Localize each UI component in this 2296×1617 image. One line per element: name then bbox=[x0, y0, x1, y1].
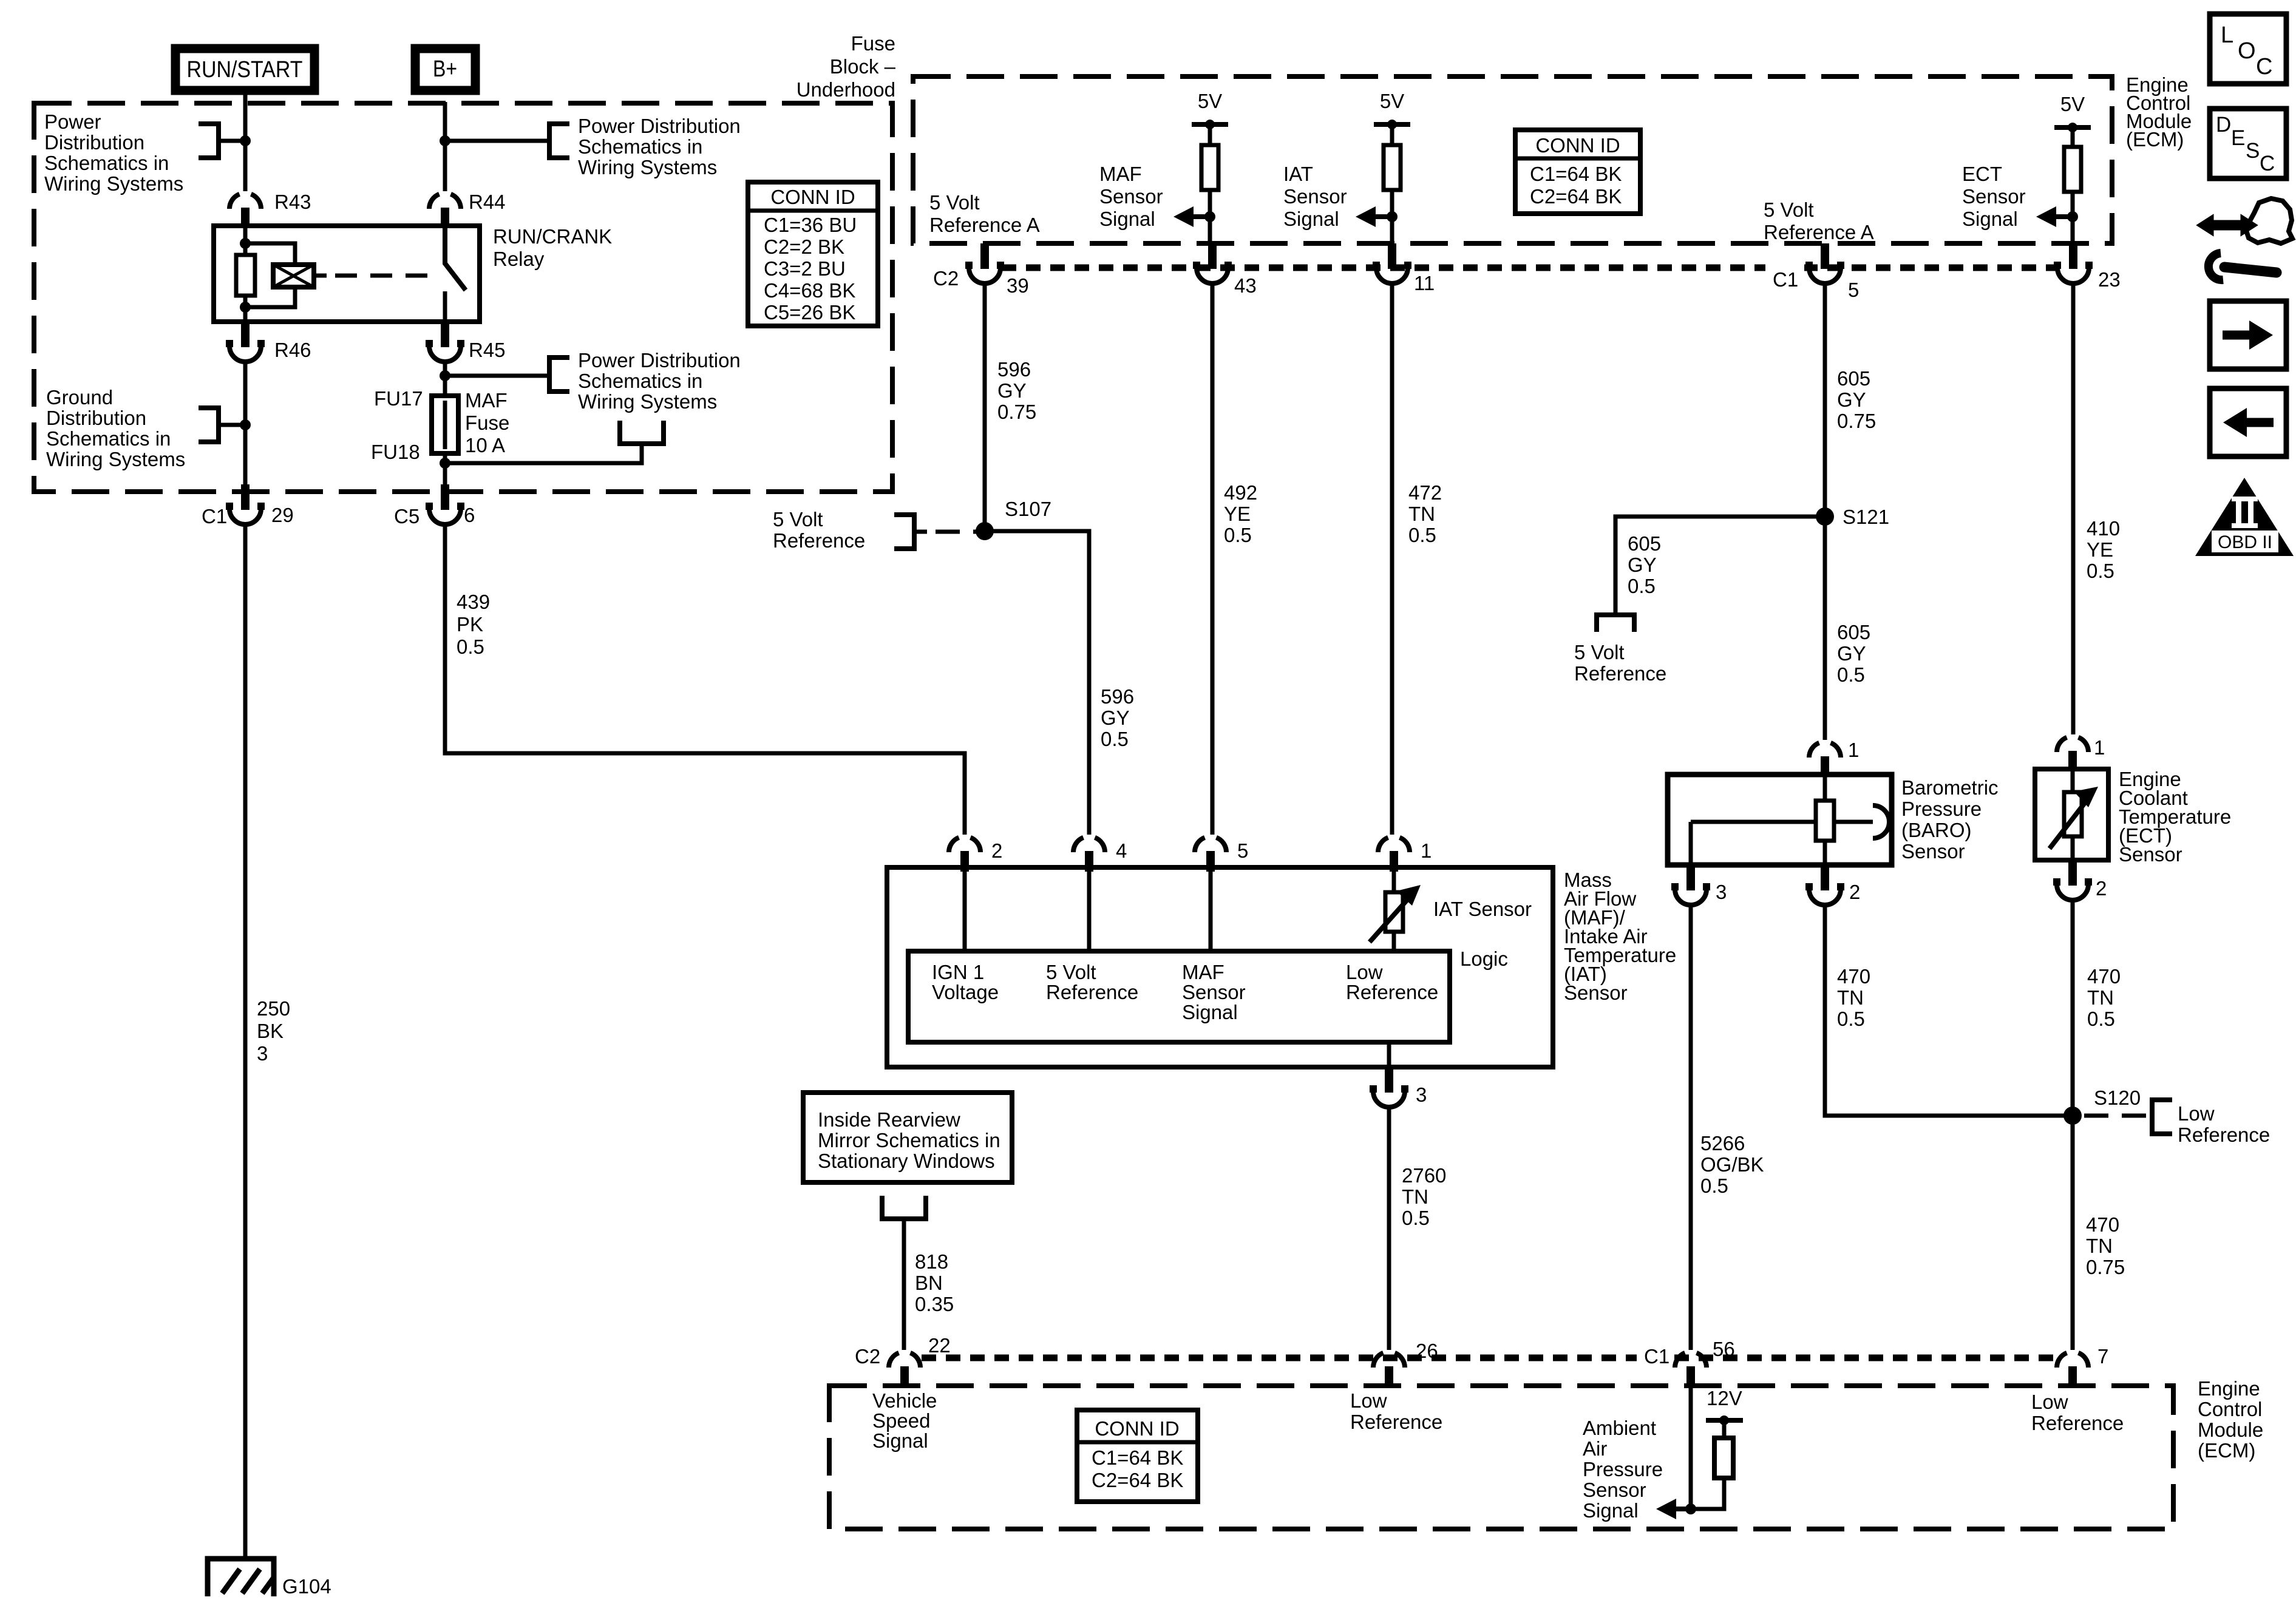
connector MAF pin 4 bbox=[1073, 838, 1127, 872]
connector C1 pin 56 bbox=[1637, 1338, 1735, 1387]
connector ECT pin 2 bbox=[2053, 860, 2107, 900]
svg-text:Module: Module bbox=[2198, 1419, 2263, 1441]
svg-text:0.5: 0.5 bbox=[1700, 1175, 1728, 1197]
svg-text:C1: C1 bbox=[202, 505, 227, 527]
svg-text:596: 596 bbox=[1101, 685, 1134, 708]
wire pin 56 inside ECM bbox=[1689, 1386, 1693, 1509]
svg-text:Pressure: Pressure bbox=[1583, 1458, 1663, 1480]
svg-text:FU17: FU17 bbox=[374, 387, 423, 410]
wire 818 BN 0.35 to ECM pin 22 bbox=[902, 1219, 906, 1350]
ECM bottom dashed box bbox=[829, 1386, 2173, 1529]
svg-text:3: 3 bbox=[1716, 881, 1727, 903]
svg-text:2: 2 bbox=[1849, 881, 1860, 903]
ECM C2 connector dotted line bbox=[1002, 265, 2058, 271]
svg-text:Fuse: Fuse bbox=[851, 32, 895, 55]
svg-text:472: 472 bbox=[1408, 481, 1442, 504]
svg-text:Signal: Signal bbox=[1099, 208, 1155, 230]
svg-text:R45: R45 bbox=[469, 339, 506, 361]
svg-text:Signal: Signal bbox=[1583, 1499, 1639, 1522]
wire 605 GY 0.5 S121 to BARO pin1 bbox=[1823, 517, 1827, 740]
svg-text:0.5: 0.5 bbox=[1101, 728, 1129, 750]
wire resistor to border bbox=[1390, 190, 1394, 245]
svg-text:Sensor: Sensor bbox=[1901, 840, 1965, 863]
svg-text:439: 439 bbox=[457, 591, 490, 613]
svg-text:Signal: Signal bbox=[1182, 1001, 1238, 1023]
connector pin 26 bbox=[1373, 1340, 1438, 1387]
svg-text:C: C bbox=[2260, 152, 2275, 175]
svg-text:OBD II: OBD II bbox=[2218, 532, 2272, 552]
wire branch right and up to bracket bbox=[445, 444, 642, 463]
wire 250 BK down to ground bbox=[243, 523, 248, 1556]
label 596 GY 0.75 bbox=[997, 358, 1036, 423]
wire dashed 5 volt reference to S107 bbox=[914, 530, 927, 534]
svg-text:Sensor: Sensor bbox=[1564, 981, 1628, 1004]
ECT sensor box bbox=[2035, 769, 2108, 860]
label 596 GY 0.5 bbox=[1101, 685, 1134, 750]
svg-text:IAT Sensor: IAT Sensor bbox=[1433, 898, 1532, 920]
svg-text:R46: R46 bbox=[274, 339, 311, 361]
svg-text:Distribution: Distribution bbox=[44, 131, 144, 154]
wire AAP arrow bbox=[1673, 1507, 1691, 1511]
label IGN 1 Voltage bbox=[932, 961, 999, 1003]
splice S120 bbox=[2063, 1086, 2141, 1125]
svg-text:Wiring Systems: Wiring Systems bbox=[578, 390, 717, 413]
BARO sensor box bbox=[1668, 775, 1892, 865]
node junction run/start to power distribution bbox=[240, 135, 251, 146]
svg-text:0.5: 0.5 bbox=[1402, 1207, 1430, 1229]
svg-text:2: 2 bbox=[2096, 877, 2107, 900]
relay switch blade bbox=[445, 226, 466, 290]
svg-text:C2=64 BK: C2=64 BK bbox=[1092, 1469, 1183, 1491]
svg-text:CONN ID: CONN ID bbox=[770, 186, 855, 208]
svg-text:IAT: IAT bbox=[1283, 163, 1313, 185]
wire branch to power distribution bracket bbox=[219, 139, 245, 143]
fuse FU17/FU18 MAF Fuse 10A bbox=[443, 398, 447, 461]
svg-text:L: L bbox=[2221, 22, 2233, 48]
svg-text:5V: 5V bbox=[1380, 90, 1404, 112]
label 439 PK 0.5 bbox=[457, 591, 490, 658]
conn id table ECM bottom bbox=[1077, 1410, 1198, 1502]
label 605 GY 0.5 bbox=[1837, 621, 1870, 686]
svg-text:0.5: 0.5 bbox=[1837, 663, 1865, 686]
wire dashed S120 to low reference bracket bbox=[2084, 1114, 2152, 1118]
svg-text:Block –: Block – bbox=[830, 55, 896, 78]
label Engine Coolant Temperature ECT Sensor bbox=[2119, 768, 2231, 866]
wire 472 TN 0.5 pin11 to MAF pin1 bbox=[1390, 282, 1394, 835]
svg-text:TN: TN bbox=[1402, 1185, 1428, 1208]
svg-text:11: 11 bbox=[1414, 272, 1435, 294]
svg-text:C2: C2 bbox=[855, 1345, 880, 1368]
svg-text:RUN/START: RUN/START bbox=[187, 57, 303, 83]
5V supply IAT pullup bbox=[1374, 90, 1410, 145]
connector C5 6 bbox=[394, 484, 475, 527]
svg-text:IGN 1: IGN 1 bbox=[932, 961, 984, 983]
svg-text:Reference: Reference bbox=[2031, 1412, 2124, 1434]
svg-text:BK: BK bbox=[257, 1020, 284, 1042]
svg-text:Voltage: Voltage bbox=[932, 981, 999, 1003]
wire below fuse bbox=[443, 453, 447, 486]
wire branch to ground bracket bbox=[219, 423, 245, 427]
svg-text:5266: 5266 bbox=[1700, 1132, 1745, 1154]
sidebar icon OBD II triangle bbox=[2195, 478, 2294, 556]
svg-text:Schematics in: Schematics in bbox=[46, 427, 171, 450]
label Fuse Block Underhood bbox=[796, 32, 896, 101]
label 605 GY 0.75 bbox=[1837, 367, 1876, 432]
svg-text:596: 596 bbox=[997, 358, 1031, 381]
svg-text:0.5: 0.5 bbox=[1408, 524, 1436, 546]
svg-text:5 Volt: 5 Volt bbox=[1574, 641, 1625, 663]
svg-text:(ECM): (ECM) bbox=[2126, 128, 2184, 151]
ECT thermistor bbox=[2050, 771, 2098, 858]
svg-text:492: 492 bbox=[1224, 481, 1257, 504]
svg-text:5V: 5V bbox=[1198, 90, 1222, 112]
svg-text:Control: Control bbox=[2198, 1398, 2262, 1420]
off-page bracket under power distribution 3 bbox=[620, 421, 664, 444]
svg-text:Inside Rearview: Inside Rearview bbox=[818, 1108, 960, 1131]
connector BARO pin 2 bbox=[1805, 865, 1860, 905]
BARO transducer arc bbox=[1873, 805, 1889, 838]
label 492 YE 0.5 bbox=[1224, 481, 1257, 546]
label 5 Volt Reference bbox=[773, 508, 865, 552]
svg-text:Ground: Ground bbox=[46, 386, 113, 408]
svg-text:B+: B+ bbox=[433, 56, 457, 82]
connector C2 pin 22 bbox=[855, 1334, 951, 1387]
wire resistor to junction bbox=[1691, 1478, 1724, 1509]
svg-text:S: S bbox=[2246, 139, 2260, 163]
label Power Distribution Schematics in Wiring Systems 3 bbox=[578, 349, 741, 413]
svg-text:Wiring Systems: Wiring Systems bbox=[578, 156, 717, 178]
wire 492 YE 0.5 pin43 to MAF pin5 bbox=[1211, 282, 1215, 835]
relay box RUN/CRANK bbox=[214, 225, 612, 322]
svg-text:0.5: 0.5 bbox=[1628, 575, 1656, 597]
resistor MAF pullup bbox=[1201, 145, 1218, 190]
svg-text:ECT: ECT bbox=[1962, 163, 2002, 185]
svg-text:OG/BK: OG/BK bbox=[1700, 1153, 1764, 1176]
svg-text:0.5: 0.5 bbox=[2087, 560, 2114, 582]
svg-text:2: 2 bbox=[991, 839, 1002, 862]
ECM top dashed box bbox=[913, 76, 2112, 243]
5V supply ECT pullup bbox=[2054, 93, 2091, 147]
label Low Reference inner bbox=[1346, 961, 1438, 1003]
ECM bottom connector dotted line bbox=[922, 1355, 2058, 1361]
wire R46 down bbox=[243, 360, 248, 486]
sidebar icon arrow right box bbox=[2210, 301, 2286, 369]
connector R43 bbox=[229, 191, 311, 228]
svg-text:C2=64 BK: C2=64 BK bbox=[1530, 185, 1622, 208]
label 818 BN 0.35 bbox=[915, 1250, 954, 1315]
svg-text:410: 410 bbox=[2087, 517, 2120, 540]
wire 5266 OG/BK BARO pin3 to ECM pin 56 bbox=[1689, 903, 1693, 1350]
svg-text:29: 29 bbox=[271, 504, 294, 526]
splice S121 bbox=[1816, 506, 1889, 528]
svg-text:Pressure: Pressure bbox=[1901, 798, 1982, 820]
svg-text:Sensor: Sensor bbox=[1283, 185, 1347, 208]
conn id table ECM top bbox=[1515, 130, 1640, 214]
svg-text:1: 1 bbox=[1421, 839, 1432, 862]
svg-text:Signal: Signal bbox=[1962, 208, 2018, 230]
svg-text:Sensor: Sensor bbox=[1099, 185, 1163, 208]
svg-text:C5: C5 bbox=[394, 505, 419, 527]
svg-text:Mirror Schematics in: Mirror Schematics in bbox=[818, 1129, 1000, 1151]
svg-text:C4=68 BK: C4=68 BK bbox=[764, 279, 855, 302]
label 470 TN 0.5 right bbox=[2087, 965, 2121, 1030]
svg-text:5 Volt: 5 Volt bbox=[1764, 198, 1814, 221]
label Low Reference S120 bbox=[2178, 1102, 2270, 1146]
connector ECT pin 1 bbox=[2057, 736, 2105, 771]
connector MAF pin 2 bbox=[949, 838, 1002, 872]
MAF/IAT sensor box bbox=[887, 867, 1553, 1067]
svg-text:Reference: Reference bbox=[1046, 981, 1138, 1003]
svg-text:Reference A: Reference A bbox=[929, 214, 1040, 236]
svg-text:S121: S121 bbox=[1843, 506, 1889, 528]
connector pin 43 bbox=[1193, 243, 1257, 297]
connector R46 bbox=[226, 322, 311, 362]
wire branch right to bracket bbox=[445, 139, 549, 143]
svg-text:GY: GY bbox=[1628, 554, 1657, 576]
svg-text:Sensor: Sensor bbox=[2119, 843, 2182, 866]
svg-text:Stationary Windows: Stationary Windows bbox=[818, 1150, 995, 1172]
svg-text:2760: 2760 bbox=[1402, 1164, 1446, 1187]
wire branch right to bracket bbox=[445, 374, 549, 378]
5V supply MAF pullup bbox=[1192, 90, 1228, 145]
svg-text:Reference: Reference bbox=[1574, 662, 1666, 685]
svg-text:Speed: Speed bbox=[872, 1409, 930, 1432]
svg-text:C2=2 BK: C2=2 BK bbox=[764, 236, 844, 258]
svg-text:Reference: Reference bbox=[1350, 1411, 1442, 1433]
svg-text:O: O bbox=[2238, 38, 2256, 64]
resistor BARO bbox=[1816, 801, 1834, 841]
label 250 BK 3 bbox=[257, 997, 290, 1065]
node junction above fuse bbox=[440, 370, 450, 381]
label Low Reference pin7 bbox=[2031, 1391, 2124, 1434]
svg-text:1: 1 bbox=[2094, 736, 2105, 759]
svg-text:23: 23 bbox=[2098, 268, 2121, 291]
svg-text:C1: C1 bbox=[1644, 1345, 1669, 1368]
node junction B+ to power distribution bbox=[440, 135, 450, 146]
svg-text:Air: Air bbox=[1583, 1437, 1607, 1460]
power feed box B+ bbox=[415, 49, 475, 90]
connector pin 7 bbox=[2057, 1345, 2108, 1387]
svg-text:C1: C1 bbox=[1773, 268, 1798, 291]
svg-text:Reference: Reference bbox=[773, 529, 865, 552]
svg-text:(BARO): (BARO) bbox=[1901, 819, 1972, 841]
svg-text:YE: YE bbox=[2087, 538, 2113, 561]
svg-text:E: E bbox=[2231, 126, 2245, 150]
svg-text:3: 3 bbox=[1416, 1083, 1427, 1106]
svg-text:12V: 12V bbox=[1707, 1387, 1742, 1409]
conn id table fuse block bbox=[748, 182, 878, 326]
connector MAF pin 5 bbox=[1195, 838, 1248, 872]
svg-text:G104: G104 bbox=[282, 1575, 331, 1598]
svg-text:5 Volt: 5 Volt bbox=[1046, 961, 1096, 983]
connector BARO pin 3 bbox=[1671, 865, 1727, 905]
svg-text:PK: PK bbox=[457, 613, 483, 636]
wire 605 GY 0.75 C1 pin5 to S121 bbox=[1823, 282, 1827, 517]
label Power Distribution Schematics in Wiring Systems 1 bbox=[44, 110, 183, 195]
Inside Rearview Mirror box bbox=[803, 1093, 1012, 1182]
svg-text:RUN/CRANK: RUN/CRANK bbox=[493, 225, 612, 248]
svg-text:6: 6 bbox=[464, 504, 475, 526]
sidebar icon hand with wrench bbox=[2198, 198, 2292, 280]
svg-text:605: 605 bbox=[1837, 621, 1870, 643]
ground G104 bbox=[208, 1559, 331, 1598]
wire pin2 inside bbox=[963, 870, 967, 951]
label Engine Control Module ECM top bbox=[2126, 73, 2192, 151]
svg-text:Power Distribution: Power Distribution bbox=[578, 115, 741, 137]
svg-text:Power: Power bbox=[44, 110, 101, 133]
wire R45 down bbox=[443, 360, 447, 398]
svg-text:470: 470 bbox=[2087, 965, 2121, 988]
svg-text:Reference: Reference bbox=[2178, 1124, 2270, 1146]
label Power Distribution Schematics in Wiring Systems 2 bbox=[578, 115, 741, 178]
wire pin5 inside bbox=[1209, 870, 1213, 951]
svg-text:0.5: 0.5 bbox=[1837, 1008, 1865, 1030]
svg-text:GY: GY bbox=[1837, 388, 1866, 411]
svg-text:Distribution: Distribution bbox=[46, 407, 146, 429]
svg-text:MAF: MAF bbox=[1099, 163, 1142, 185]
svg-text:(ECM): (ECM) bbox=[2198, 1439, 2255, 1462]
svg-text:C: C bbox=[2256, 54, 2272, 80]
svg-text:Underhood: Underhood bbox=[796, 78, 895, 101]
resistor AAP pullup bbox=[1714, 1438, 1733, 1478]
label MAF Sensor Signal bbox=[1099, 163, 1163, 230]
svg-text:470: 470 bbox=[1837, 965, 1870, 988]
svg-text:D: D bbox=[2216, 113, 2231, 137]
svg-text:22: 22 bbox=[928, 1334, 951, 1357]
svg-text:5: 5 bbox=[1237, 839, 1248, 862]
node junction below fuse bbox=[440, 458, 450, 469]
wire 596 GY 0.5 S107 to MAF pin4 bbox=[985, 531, 1089, 835]
svg-text:TN: TN bbox=[1408, 503, 1435, 525]
svg-text:BN: BN bbox=[915, 1272, 943, 1294]
svg-text:605: 605 bbox=[1628, 532, 1661, 555]
svg-text:TN: TN bbox=[2086, 1235, 2113, 1257]
MAF logic box bbox=[908, 947, 1508, 1042]
label 5266 OG/BK 0.5 bbox=[1700, 1132, 1764, 1197]
svg-text:Wiring Systems: Wiring Systems bbox=[44, 172, 183, 195]
svg-text:43: 43 bbox=[1234, 274, 1257, 297]
label Mass Air Flow MAF Intake Air Temperature IAT Sensor bbox=[1564, 869, 1676, 1004]
wire 470 TN 0.75 S120 to ECM pin7 bbox=[2071, 1116, 2075, 1350]
svg-text:10 A: 10 A bbox=[465, 434, 505, 456]
svg-text:0.75: 0.75 bbox=[997, 401, 1036, 423]
svg-text:5: 5 bbox=[1848, 279, 1859, 301]
relay switch contact bbox=[443, 291, 447, 322]
wire 596 GY 0.75 pin39 to S107 bbox=[983, 282, 987, 531]
off-page bracket power distribution 1 bbox=[199, 124, 219, 158]
label 2760 TN 0.5 bbox=[1402, 1164, 1446, 1229]
connector pin 23 bbox=[2054, 243, 2121, 291]
connector C1 29 bbox=[202, 484, 294, 527]
svg-text:3: 3 bbox=[257, 1042, 268, 1065]
wire 470 TN 0.5 ECT pin2 to S120 bbox=[2071, 898, 2075, 1116]
svg-text:250: 250 bbox=[257, 997, 290, 1020]
wire resistor to border bbox=[2071, 192, 2075, 245]
wire 410 YE 0.5 pin23 to ECT pin1 bbox=[2071, 282, 2076, 734]
svg-text:605: 605 bbox=[1837, 367, 1870, 390]
svg-text:C1=64 BK: C1=64 BK bbox=[1092, 1446, 1183, 1469]
IAT thermistor bbox=[1370, 885, 1532, 942]
wire 470 TN 0.5 BARO pin2 to S120 bbox=[1825, 903, 2064, 1116]
svg-text:Relay: Relay bbox=[493, 248, 545, 270]
svg-text:C2: C2 bbox=[933, 267, 959, 290]
svg-text:C5=26 BK: C5=26 BK bbox=[764, 301, 855, 324]
sidebar icon arrow left box bbox=[2210, 388, 2286, 456]
resistor IAT pullup bbox=[1384, 145, 1401, 190]
svg-text:C3=2 BU: C3=2 BU bbox=[764, 257, 846, 280]
connector C1 pin 5 bbox=[1765, 243, 1859, 301]
wire resistor to border bbox=[1208, 190, 1212, 245]
svg-text:470: 470 bbox=[2086, 1213, 2119, 1236]
svg-text:5 Volt: 5 Volt bbox=[773, 508, 823, 531]
label Ambient Air Pressure Sensor Signal bbox=[1583, 1417, 1663, 1522]
label 5 Volt Reference bbox=[1046, 961, 1138, 1003]
svg-text:FU18: FU18 bbox=[371, 441, 420, 463]
node MAF signal junction bbox=[1204, 211, 1215, 222]
svg-text:Sensor: Sensor bbox=[1583, 1479, 1646, 1501]
svg-text:Sensor: Sensor bbox=[1182, 981, 1246, 1003]
label Ground Distribution Schematics in Wiring Systems bbox=[46, 386, 185, 470]
wire 2760 TN 0.5 to ECM pin 26 bbox=[1387, 1105, 1391, 1350]
12V supply bbox=[1706, 1387, 1743, 1438]
svg-text:Engine: Engine bbox=[2198, 1377, 2260, 1400]
wire coil to switch dashed bbox=[314, 274, 327, 278]
label 5 Volt Reference A left bbox=[929, 191, 1040, 236]
connector C2 pin 39 bbox=[933, 243, 1029, 297]
splice S107 bbox=[976, 498, 1051, 540]
label IAT Sensor Signal bbox=[1283, 163, 1347, 230]
svg-text:Ambient: Ambient bbox=[1583, 1417, 1656, 1439]
svg-text:7: 7 bbox=[2097, 1345, 2108, 1368]
svg-text:C1=36 BU: C1=36 BU bbox=[764, 214, 857, 236]
label 605 GY 0.5 stub bbox=[1628, 532, 1661, 597]
svg-text:0.75: 0.75 bbox=[2086, 1256, 2125, 1278]
label 472 TN 0.5 bbox=[1408, 481, 1442, 546]
wire IAT signal arrow bbox=[1373, 214, 1392, 219]
resistor relay parallel bbox=[236, 255, 255, 296]
wire RUN/START down bbox=[243, 95, 248, 191]
svg-text:TN: TN bbox=[1837, 986, 1864, 1009]
wire S121 branch to 5 volt reference stub bbox=[1615, 517, 1825, 612]
svg-text:0.35: 0.35 bbox=[915, 1293, 954, 1315]
svg-text:Reference: Reference bbox=[1346, 981, 1438, 1003]
svg-text:Schematics in: Schematics in bbox=[578, 370, 702, 392]
svg-text:56: 56 bbox=[1713, 1338, 1735, 1360]
svg-text:Wiring Systems: Wiring Systems bbox=[46, 448, 185, 470]
node coil bottom bbox=[240, 302, 251, 313]
off-page bracket ground distribution bbox=[199, 408, 219, 442]
off-page bracket power distribution 2 bbox=[549, 124, 569, 158]
svg-text:Low: Low bbox=[1346, 961, 1383, 983]
svg-text:0.5: 0.5 bbox=[1224, 524, 1252, 546]
node coil top bbox=[240, 238, 251, 249]
svg-text:Low: Low bbox=[1350, 1389, 1387, 1412]
wire ECT signal arrow bbox=[2053, 214, 2073, 219]
fuse block underhood dashed box bbox=[34, 103, 892, 492]
label 470 TN 0.75 bbox=[2086, 1213, 2125, 1278]
svg-text:1: 1 bbox=[1848, 739, 1859, 761]
relay coil box bbox=[273, 265, 314, 287]
label Barometric Pressure BARO Sensor bbox=[1901, 776, 1999, 863]
wire pin4 inside bbox=[1087, 870, 1092, 951]
node IAT signal junction bbox=[1387, 211, 1398, 222]
connector MAF pin 1 bbox=[1378, 838, 1432, 872]
connector MAF pin 3 bbox=[1370, 1067, 1427, 1107]
svg-text:CONN ID: CONN ID bbox=[1535, 134, 1620, 157]
svg-text:Schematics in: Schematics in bbox=[578, 135, 702, 158]
svg-text:39: 39 bbox=[1007, 274, 1029, 297]
wire B+ down bbox=[443, 102, 447, 191]
